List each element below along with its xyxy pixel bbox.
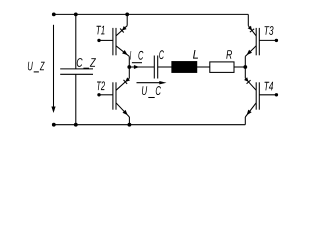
transistor T3 — [245, 14, 278, 56]
node right leg midpoint — [243, 65, 247, 69]
voltage arrow U_Z — [53, 25, 55, 107]
capacitor C — [153, 56, 155, 79]
node top-left terminal — [52, 13, 56, 17]
node bottom bus / C_Z junction — [74, 123, 78, 127]
node top bus / C_Z junction — [74, 13, 78, 17]
wire L to R — [197, 66, 210, 68]
label T2 — [97, 81, 101, 90]
wire T3 emitter to T4 collector — [244, 56, 246, 78]
label I_C underscore — [132, 62, 142, 64]
wire T4 emitter to bottom bus — [244, 117, 246, 125]
transistor T4 — [244, 77, 278, 117]
wire bridge midpoint to capacitor C — [129, 66, 154, 68]
voltage arrow U_C — [137, 82, 161, 84]
wire bottom bus — [54, 124, 246, 126]
label U_C underscore — [148, 97, 154, 99]
transistor T1 — [97, 14, 129, 56]
label L — [193, 50, 198, 59]
label C_Z — [77, 58, 96, 67]
node bottom bus / T2 junction — [127, 123, 131, 127]
label U_C — [142, 86, 161, 95]
label U_Z — [28, 62, 45, 71]
inductor L — [172, 62, 197, 73]
label C_Z underscore — [83, 67, 89, 69]
label C — [159, 50, 164, 59]
wire T2 emitter to bottom bus — [128, 117, 130, 125]
node bottom-left terminal — [52, 123, 56, 127]
node top bus / T1 junction — [125, 13, 129, 17]
label T4 — [265, 82, 270, 91]
wire R to right leg — [234, 66, 245, 68]
label T3 — [264, 26, 269, 35]
wire T1 emitter to T2 collector — [128, 56, 130, 78]
transistor T2 — [97, 77, 130, 117]
resistor R — [210, 62, 234, 73]
node left leg midpoint — [127, 65, 131, 69]
label U_Z underscore — [34, 71, 39, 73]
label I_C — [130, 51, 144, 60]
capacitor C_Z — [75, 14, 77, 69]
current arrow I_C on wire — [134, 65, 139, 69]
wire top bus — [54, 13, 249, 15]
label T1 — [97, 26, 102, 35]
label R — [226, 50, 232, 59]
